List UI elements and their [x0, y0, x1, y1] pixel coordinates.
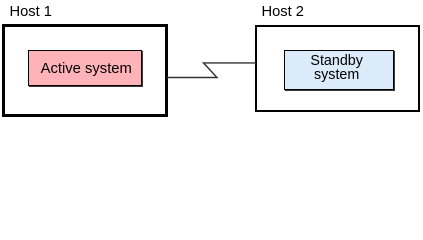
active system box label [29, 61, 144, 78]
standby system box label [284, 54, 389, 83]
standby system box [284, 50, 393, 90]
host 2 enclosure box [255, 25, 420, 112]
label Host 2 [262, 4, 304, 20]
label Host 1 [10, 4, 52, 20]
active system box [28, 50, 142, 86]
host 1 enclosure box [2, 24, 168, 117]
wire: network link zigzag between host boxes [160, 55, 260, 85]
